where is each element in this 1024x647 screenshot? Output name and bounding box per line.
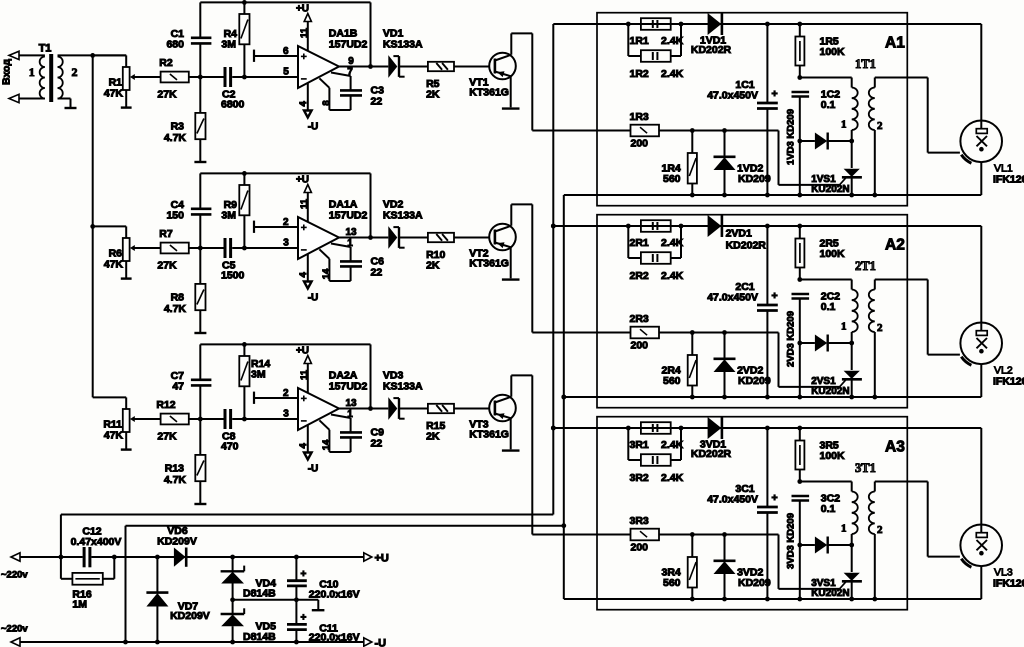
svg-text:KS133A: KS133A [383,381,423,393]
svg-text:13: 13 [345,398,357,409]
svg-text:2R2: 2R2 [630,270,649,282]
svg-text:100K: 100K [820,46,846,58]
svg-text:3R1: 3R1 [630,439,649,451]
svg-text:+U: +U [296,175,309,186]
svg-text:6: 6 [283,46,289,57]
svg-text:-U: -U [308,293,319,304]
svg-text:3VD3 KD209: 3VD3 KD209 [786,513,797,569]
svg-text:1: 1 [841,523,847,535]
svg-text:13: 13 [345,227,357,238]
svg-text:2.4K: 2.4K [661,270,684,282]
svg-text:22: 22 [371,267,383,279]
svg-text:27K: 27K [157,260,177,272]
svg-text:1: 1 [29,65,35,79]
svg-text:3R2: 3R2 [630,472,649,484]
svg-text:KT361G: KT361G [469,429,509,441]
svg-text:R13: R13 [165,463,184,475]
svg-text:2K: 2K [426,431,440,443]
svg-text:-U: -U [308,122,319,133]
svg-text:2R1: 2R1 [630,237,649,249]
svg-text:R3: R3 [171,121,185,133]
svg-text:0.1: 0.1 [821,99,836,111]
svg-text:14: 14 [321,439,332,450]
svg-text:A1: A1 [885,35,905,52]
svg-text:IFK120: IFK120 [993,376,1024,388]
svg-text:+: + [772,290,778,302]
svg-text:47.0x450V: 47.0x450V [707,494,758,506]
svg-text:IFK120: IFK120 [993,174,1024,186]
svg-text:1R1: 1R1 [630,35,649,47]
svg-text:2.4K: 2.4K [661,472,684,484]
svg-text:1R3: 1R3 [630,111,649,123]
svg-text:2: 2 [877,524,883,536]
svg-text:KD209: KD209 [738,577,771,589]
svg-text:KT361G: KT361G [469,87,509,99]
svg-text:3M: 3M [251,369,266,381]
svg-text:47K: 47K [104,430,124,442]
svg-text:157UD2: 157UD2 [329,381,368,393]
svg-text:150: 150 [166,210,184,222]
svg-text:2K: 2K [426,260,440,272]
svg-text:KU202N: KU202N [811,386,849,397]
svg-text:3R3: 3R3 [630,515,649,527]
svg-text:4.7K: 4.7K [164,303,187,315]
svg-text:47K: 47K [104,88,124,100]
svg-text:157UD2: 157UD2 [329,210,368,222]
svg-text:KD202R: KD202R [691,44,732,56]
svg-text:2R3: 2R3 [630,313,649,325]
svg-text:560: 560 [663,173,681,185]
svg-text:2K: 2K [426,89,440,101]
svg-text:KT361G: KT361G [469,258,509,270]
svg-text:100K: 100K [820,248,846,260]
svg-text:KD209: KD209 [738,173,771,185]
svg-text:-U: -U [375,638,387,647]
svg-text:1500: 1500 [221,270,245,282]
svg-text:~220v: ~220v [1,624,28,635]
svg-text:1VD3 KD209: 1VD3 KD209 [786,109,797,165]
svg-text:Вход: Вход [1,59,13,85]
svg-text:+: + [772,88,778,100]
svg-text:KD202R: KD202R [726,240,767,252]
svg-text:0.47x400V: 0.47x400V [71,536,122,548]
svg-text:2.4K: 2.4K [661,237,684,249]
svg-text:100K: 100K [820,450,846,462]
svg-text:T1: T1 [39,43,52,55]
svg-text:3T1: 3T1 [855,461,876,475]
svg-text:3: 3 [283,238,289,249]
svg-text:11: 11 [299,369,310,380]
svg-text:3M: 3M [221,39,236,51]
svg-text:2VD1: 2VD1 [726,228,752,240]
svg-text:4: 4 [298,100,309,106]
svg-text:4.7K: 4.7K [164,474,187,486]
svg-text:27K: 27K [157,89,177,101]
svg-text:2: 2 [877,322,883,334]
svg-text:3: 3 [283,409,289,420]
svg-text:KD209V: KD209V [157,536,197,548]
svg-text:200: 200 [631,542,649,554]
svg-text:2.4K: 2.4K [661,35,684,47]
svg-text:1R2: 1R2 [630,68,649,80]
svg-text:22: 22 [371,96,383,108]
svg-text:9: 9 [348,56,354,67]
svg-text:D814B: D814B [243,588,276,600]
svg-text:47K: 47K [104,259,124,271]
svg-text:+: + [301,613,307,624]
svg-text:1: 1 [841,119,847,131]
svg-text:0.1: 0.1 [821,503,836,515]
svg-text:R2: R2 [159,57,173,69]
svg-text:R7: R7 [159,228,173,240]
svg-text:1: 1 [347,409,353,420]
svg-text:4: 4 [298,442,309,448]
svg-text:1: 1 [841,321,847,333]
svg-text:~220v: ~220v [1,570,28,581]
svg-text:1: 1 [347,238,353,249]
svg-text:-U: -U [308,464,319,475]
svg-text:A3: A3 [885,439,905,456]
svg-text:6800: 6800 [221,99,245,111]
svg-text:A2: A2 [885,237,905,254]
svg-text:2: 2 [72,65,78,79]
svg-text:4.7K: 4.7K [164,132,187,144]
svg-text:220.0x16V: 220.0x16V [309,632,360,644]
svg-text:R12: R12 [156,399,175,411]
svg-text:2VD3 KD209: 2VD3 KD209 [786,311,797,367]
svg-text:KU202N: KU202N [811,588,849,599]
svg-text:220.0x16V: 220.0x16V [309,589,360,601]
svg-text:5: 5 [283,67,289,78]
svg-text:KS133A: KS133A [383,39,423,51]
svg-text:+: + [301,569,307,580]
svg-text:560: 560 [663,577,681,589]
svg-text:560: 560 [663,375,681,387]
svg-text:KS133A: KS133A [383,210,423,222]
svg-text:200: 200 [631,138,649,150]
svg-text:2T1: 2T1 [855,259,876,273]
svg-text:2.4K: 2.4K [661,68,684,80]
svg-text:680: 680 [166,39,184,51]
svg-text:8: 8 [321,100,332,105]
svg-text:47: 47 [172,381,184,393]
svg-text:+U: +U [375,553,389,565]
svg-text:1T1: 1T1 [855,57,876,71]
svg-text:D814B: D814B [243,631,276,643]
svg-text:1M: 1M [72,599,87,611]
svg-text:157UD2: 157UD2 [329,39,368,51]
svg-text:+U: +U [296,4,309,15]
svg-text:47.0x450V: 47.0x450V [707,90,758,102]
svg-text:7: 7 [347,67,353,78]
svg-text:R8: R8 [171,292,185,304]
svg-text:27K: 27K [157,431,177,443]
svg-text:IFK120: IFK120 [993,578,1024,590]
svg-text:3M: 3M [221,210,236,222]
svg-text:KD209V: KD209V [170,610,210,622]
svg-text:KU202N: KU202N [811,184,849,195]
svg-text:2: 2 [877,120,883,132]
svg-text:11: 11 [299,27,310,38]
svg-text:4: 4 [298,271,309,277]
svg-text:KD202R: KD202R [691,448,732,460]
svg-text:14: 14 [321,268,332,279]
svg-text:KD209: KD209 [738,375,771,387]
svg-text:2: 2 [283,388,289,399]
svg-text:0.1: 0.1 [821,301,836,313]
svg-text:22: 22 [371,438,383,450]
svg-text:2: 2 [283,217,289,228]
svg-text:+: + [772,492,778,504]
svg-text:2.4K: 2.4K [661,439,684,451]
svg-text:200: 200 [631,340,649,352]
svg-text:470: 470 [221,441,239,453]
svg-text:11: 11 [299,198,310,209]
svg-text:+U: +U [296,346,309,357]
svg-text:47.0x450V: 47.0x450V [707,292,758,304]
